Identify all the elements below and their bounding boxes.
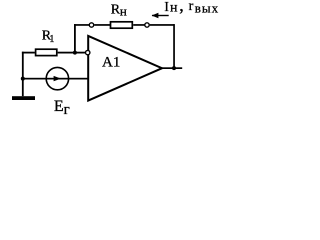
wire: R1 left lead — [22, 52, 35, 54]
resistor R1 — [36, 49, 57, 55]
wire: right vertical down to output — [173, 24, 175, 69]
svg-text:,: , — [179, 0, 184, 15]
terminal: left open circle of Rн — [89, 23, 93, 27]
wire: output stub — [162, 67, 183, 69]
label R1 — [42, 29, 55, 45]
svg-text:н: н — [170, 1, 178, 16]
op-amp A1 — [88, 36, 162, 101]
svg-text:г: г — [64, 102, 70, 118]
terminal: op-amp input open circle — [86, 50, 90, 54]
label Eг — [54, 98, 70, 118]
arrowhead inside Eг — [54, 76, 61, 81]
node: junction of R1, feedback and op-amp input — [73, 51, 77, 55]
wire: R1 right lead to op-amp input — [58, 52, 86, 54]
source Eг (current source circle) — [46, 67, 68, 89]
svg-text:I: I — [164, 0, 169, 14]
node: output junction — [172, 66, 176, 70]
wire: feedback left vertical — [74, 24, 76, 53]
svg-text:r: r — [189, 0, 194, 14]
terminal: right open circle of Rн — [145, 23, 149, 27]
resistor Rн — [111, 22, 133, 28]
svg-text:1: 1 — [49, 34, 54, 45]
wire: Rн to right terminal — [133, 24, 145, 26]
arrow: current direction Iн — [152, 13, 169, 18]
svg-text:вых: вых — [195, 1, 219, 16]
svg-text:E: E — [54, 98, 64, 115]
node: junction at ground branch — [21, 77, 25, 81]
wire: top-left horizontal to left terminal — [74, 24, 89, 26]
svg-text:A1: A1 — [102, 55, 120, 71]
wire: left vertical from ground to R1 level — [22, 52, 24, 96]
label Rн — [111, 3, 127, 19]
wire: bottom input wire through source — [22, 78, 89, 80]
wire: left terminal to Rн — [94, 24, 110, 26]
label Iн, rвых — [164, 0, 219, 16]
svg-text:н: н — [120, 3, 127, 18]
wire: right terminal to top-right corner — [150, 24, 175, 26]
ground — [12, 96, 35, 100]
